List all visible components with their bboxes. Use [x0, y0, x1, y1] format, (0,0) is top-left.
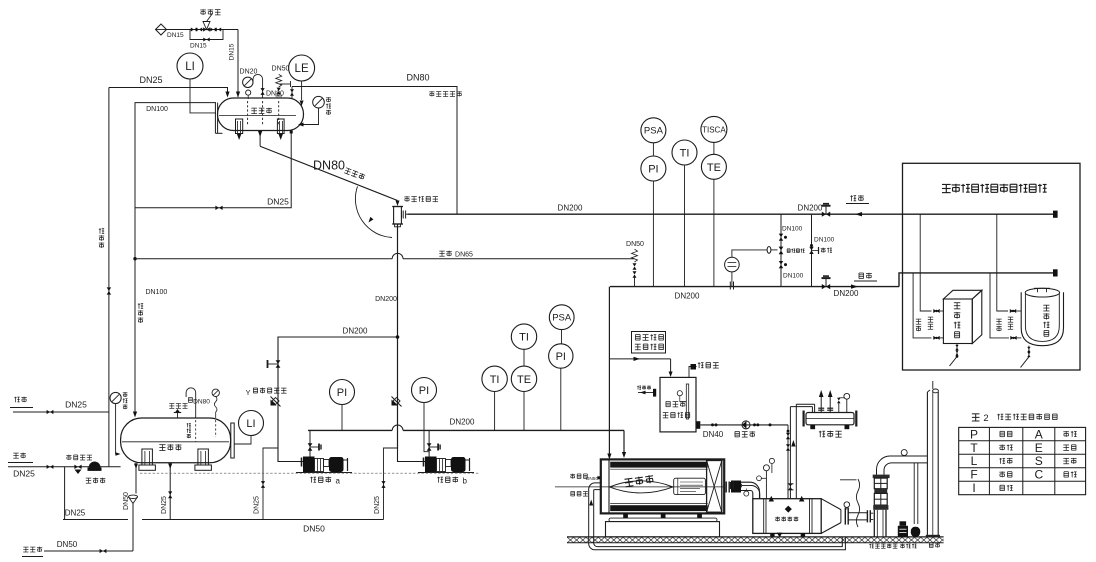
labels 软水箱 用户自备 inside tank [666, 401, 686, 407]
pressure switch alarm PSA inlet [549, 305, 574, 330]
shutoff valve lower on DN100 branch [779, 261, 783, 268]
pump-a discharge with valve to header [309, 430, 311, 456]
wire: separator drop DN200 [397, 224, 399, 448]
label 溢流管 on DN100 drop [138, 303, 143, 323]
heater bottom refractory band [610, 505, 708, 511]
saddle supports of expansion tank [236, 119, 243, 134]
wire: vessel feed from return line [997, 214, 1008, 311]
label 放空管 vertical [187, 423, 191, 438]
temperature element TE [511, 366, 536, 391]
loop seal arc at separator [355, 186, 392, 237]
marks on waste heat boiler top [769, 496, 774, 502]
dip tubes dashed in storage tank [195, 420, 197, 442]
wire: cabinet feed from return line [920, 214, 931, 311]
oil-gas separator 油气分离器 [404, 196, 438, 202]
level element LE [289, 55, 315, 81]
label 燃烧器 [571, 491, 588, 496]
table chinese column 2 [1063, 431, 1076, 437]
svg-text:DN200: DN200 [834, 289, 859, 298]
upper temperature indicator TI [511, 324, 536, 349]
svg-text:DN100: DN100 [782, 226, 803, 233]
control valve 调节阀 on DN100 branch [779, 247, 784, 255]
wire: TI stem [684, 165, 686, 287]
waste heat boiler 余热锅炉 shell [753, 499, 821, 534]
stack 烟囱 [926, 392, 928, 537]
vessel inlet valves [1010, 309, 1016, 313]
wire: feedwater drop with valves [787, 425, 789, 499]
label 铸铁 DN65 [439, 251, 451, 257]
label 余热锅炉 [775, 517, 798, 522]
wire: LI stem into tank left head [190, 79, 216, 113]
labels at vessel valves [996, 319, 1001, 331]
labels at cabinet valves [916, 319, 921, 331]
svg-text:b: b [463, 477, 468, 486]
shutoff valve upper on DN100 branch [779, 234, 783, 241]
label 回油 with underline and flow arrow [850, 195, 864, 201]
hanger rods to induced draft fan [913, 463, 915, 524]
wire: DN25 from left riser to expansion tank top [109, 88, 228, 93]
label 循环泵a [310, 477, 331, 483]
wire: DN15 line from flame arrestor to solenoid manifold [166, 29, 238, 31]
wire: instrument tap with break marks [731, 272, 733, 287]
wire: steam riser double pipe from waste heat boiler [789, 407, 791, 499]
svg-text:DN25: DN25 [267, 197, 289, 207]
waste heat boiler outlet cone [821, 499, 841, 510]
induced draft fan 引风机 [898, 526, 908, 537]
drain riser from pump-a suction [263, 448, 278, 520]
svg-text:DN15: DN15 [229, 43, 236, 60]
svg-text:DN200: DN200 [798, 204, 823, 213]
svg-text:DN80: DN80 [313, 159, 345, 173]
wire: DN100 bypass branch [811, 214, 813, 286]
pressure gauge on distributor [844, 393, 850, 399]
valve on DN25 equalizing line [215, 206, 222, 210]
svg-text:a: a [336, 477, 341, 486]
label 软水泵 [735, 431, 755, 437]
svg-text:DN100: DN100 [783, 273, 804, 280]
svg-text:C: C [1034, 468, 1043, 482]
svg-text:DN200: DN200 [675, 292, 700, 301]
svg-text:DN65: DN65 [455, 252, 473, 259]
wire: cabinet feed from supply line [913, 273, 931, 338]
svg-text:T: T [970, 441, 978, 455]
overflow nozzle with arrow [637, 386, 651, 390]
label 引风机 [900, 544, 916, 549]
heater nameplate [674, 478, 706, 494]
riser nozzle 2 with arrow [829, 396, 831, 413]
svg-text:DN25: DN25 [13, 469, 35, 479]
wire: pump-a suction from DN200 riser branch [278, 337, 398, 462]
thermometer 温度计 at tank right [313, 96, 325, 108]
svg-text:DN20: DN20 [240, 69, 258, 76]
distributor legs [810, 425, 815, 429]
drain header DN50 [142, 519, 384, 521]
svg-text:DN100: DN100 [146, 289, 168, 296]
level indicator LI (expansion tank) [177, 53, 203, 79]
svg-text:PSA: PSA [644, 126, 664, 137]
svg-text:DN25: DN25 [161, 496, 168, 514]
wire: DN25 equalizing line tank bottom right [135, 132, 291, 208]
svg-text:DN50: DN50 [272, 66, 290, 73]
table chinese column 1 [1000, 431, 1012, 436]
cabinet drain with valves [956, 344, 958, 357]
svg-text:DN200: DN200 [558, 204, 583, 213]
svg-text:DN50: DN50 [57, 540, 78, 549]
burner fuel piping loop under floor [589, 483, 846, 550]
svg-text:TI: TI [680, 147, 690, 159]
wire: DN100 make-up line elbow to tank left plate [135, 103, 216, 412]
label 用热设备 in vessel [1043, 305, 1049, 336]
pressure indicator PI pump-a [330, 380, 355, 405]
label 点火口 DN50 [570, 474, 587, 479]
heat-user cabinet (3D box) [943, 299, 972, 344]
Y-strainer pump-b [392, 397, 402, 407]
svg-text:DN200: DN200 [450, 418, 475, 427]
pressure switch alarm PSA (heater outlet) [641, 118, 666, 143]
svg-text:PI: PI [337, 387, 347, 399]
label 空气预热器 [869, 544, 897, 549]
svg-text:TE: TE [517, 374, 531, 386]
heater top refractory band [610, 462, 708, 468]
svg-text:PI: PI [648, 163, 658, 175]
flue duct from economizer to stack [877, 456, 928, 475]
jacketed heat-user vessel [1021, 292, 1063, 345]
wire: PSA-PI stem to supply header [652, 143, 654, 156]
heater foundation block [606, 522, 720, 537]
svg-text:LE: LE [295, 63, 309, 75]
valve nozzle on distributor [838, 403, 840, 413]
level indicator LI on storage tank [239, 411, 264, 436]
steam distributor 分汽缸 [806, 413, 854, 425]
valve pair on steam riser [787, 483, 793, 485]
temperature indicator TI (heater outlet) [672, 140, 697, 165]
valve pair right of solenoid [210, 28, 216, 32]
label 膨胀管 rotated on diagonal [344, 167, 365, 180]
svg-text:DN100: DN100 [146, 106, 168, 113]
valve on left riser [107, 287, 111, 294]
label 烟囱 [929, 543, 940, 548]
svg-text:TE: TE [707, 162, 721, 174]
svg-text:P: P [970, 427, 978, 441]
label 分汽缸 [819, 431, 842, 437]
vent gooseneck 至DN80 on tank top [253, 74, 263, 98]
svg-text:DN80: DN80 [266, 91, 284, 98]
svg-text:DN50: DN50 [303, 524, 325, 534]
svg-text:2: 2 [983, 413, 988, 424]
drain riser from pump-b suction [384, 448, 398, 520]
svg-text:PSA: PSA [552, 313, 572, 324]
wire: fill line branch down to drain header [64, 467, 66, 520]
svg-text:PI: PI [556, 351, 566, 363]
wire: expansion drop pipe from tank bottom [259, 131, 261, 147]
valve on tank gas nozzle to DN80 header [291, 87, 293, 99]
soft water tank 软水箱用户自备 [660, 377, 696, 432]
flame pattern ellipse with label [610, 481, 674, 493]
oil filter 油过滤器 [66, 455, 92, 460]
vessel: expansion tank 膨胀槽 [218, 98, 304, 131]
temperature indicator TI heater-inlet group [482, 366, 507, 391]
gauge on flue duct [901, 450, 907, 456]
label 接膨胀气管 [429, 91, 462, 96]
wire: left main riser x=109 [108, 88, 110, 467]
heater 导热油炉 shell [601, 459, 724, 513]
breather valve 呼吸阀 [169, 404, 187, 409]
match line wavy break [856, 479, 859, 527]
gauge on cone neck [844, 502, 850, 508]
circulating pump b 循环泵b [425, 457, 437, 473]
gate valve on supply header [822, 284, 830, 289]
heat-user area frame 用热设备区域流程示意框 [903, 163, 1081, 370]
feedwater valve train into waste heat boiler [730, 482, 732, 489]
gate valve on return header [822, 212, 830, 217]
vent to atmosphere 通大气 [689, 367, 697, 378]
table 表2 caption [972, 414, 980, 421]
wire: DN100 control valve branch between headers [780, 214, 782, 286]
svg-text:DN40: DN40 [703, 430, 724, 439]
label 供油 with underline and flow arrow [859, 273, 872, 279]
pressure indicator PI below PSA [641, 156, 666, 181]
svg-text:DN50: DN50 [626, 241, 644, 248]
vessel: oil storage tank 储油槽 [121, 418, 231, 463]
wire: TISCA-TE stem [713, 142, 715, 154]
label 循环泵b [437, 477, 458, 483]
return line terminator in frame [1053, 211, 1058, 218]
pump-b discharge with valve [428, 430, 430, 456]
svg-text:DN25: DN25 [65, 509, 86, 518]
cabinet inlet valves [933, 309, 939, 313]
rear smoke box with X bracing [707, 461, 722, 513]
pressure indicator PI pump-b [412, 378, 437, 403]
wire: supply header DN200 (y=287) [610, 286, 899, 288]
suction valve pump-a (handle left) [276, 360, 281, 368]
vent stack 至DN80 gooseneck on storage tank [188, 397, 192, 402]
svg-text:DN80: DN80 [406, 73, 429, 83]
label 储油槽 [159, 444, 181, 450]
wire: supply drop to heater inlet [608, 287, 610, 454]
svg-text:DN200: DN200 [375, 296, 397, 303]
svg-text:F: F [970, 468, 977, 482]
wire: main return header DN200 (y=214) [408, 213, 1055, 215]
storage tank left drain with funnel to DN50 [135, 463, 137, 494]
wire: DN80 expansion gas header [292, 87, 457, 215]
svg-text:E: E [1035, 441, 1043, 455]
wire: pump discharge header to heater DN200 [308, 429, 392, 431]
blowdown pipe 运行管 DN50 [23, 547, 42, 552]
storage tank saddles [142, 449, 153, 465]
wire: vessel feed from supply line [990, 273, 1009, 338]
pressure gauge with siphon on storage tank [212, 389, 219, 396]
foundation line under tank and pumps [140, 472, 480, 474]
svg-text:DN50: DN50 [586, 476, 599, 482]
svg-text:DN25: DN25 [65, 400, 87, 410]
svg-text:TI: TI [490, 374, 500, 386]
bypass valve 旁通 [809, 247, 813, 254]
wire: DN80 expansion diagonal 膨胀管 to separator [260, 146, 397, 200]
waste heat boiler legs and marks [770, 533, 774, 536]
wire: soft water supply tee with arrow [609, 358, 670, 360]
heater support feet [623, 513, 628, 518]
soft water pump line DN40 [696, 421, 700, 429]
oil drain line 排油 DN25 [14, 397, 26, 403]
pressure indicator PI inlet [549, 344, 573, 368]
label box 软水设备用户自备 [632, 332, 666, 354]
label 用热设备 in cabinet [954, 303, 960, 338]
storage tank center drain with valve [169, 463, 171, 520]
temperature element TE below TISCA [701, 154, 726, 179]
wire: cast-iron DN65 overflow line [135, 258, 392, 260]
ground line [567, 536, 944, 538]
heater skid bar [609, 518, 717, 522]
svg-text:LI: LI [185, 61, 195, 73]
economizer tower 空气预热器 [873, 475, 890, 479]
svg-text:DN15: DN15 [167, 32, 184, 39]
supply line terminator in frame [1053, 269, 1058, 276]
svg-text:DN100: DN100 [814, 237, 835, 244]
wire: pump-b suction drop from separator line [398, 448, 426, 462]
flanged outlet duct heater to waste-heat boiler [725, 482, 727, 493]
svg-text:S: S [1035, 454, 1043, 468]
solenoid valve 电磁阀 with actuator [203, 27, 210, 31]
svg-text:DN25: DN25 [374, 496, 381, 514]
svg-text:A: A [1035, 427, 1043, 441]
svg-text:L: L [971, 454, 978, 468]
tank level gauge [686, 384, 688, 419]
label 回油管 vertical [99, 228, 104, 248]
dip tubes (dashed) inside expansion tank [247, 101, 249, 125]
wire: DN15 drop to expansion tank, rotated label [237, 30, 239, 98]
svg-text:TISCA: TISCA [702, 125, 726, 134]
svg-text:PI: PI [419, 385, 429, 397]
svg-text:DN25: DN25 [254, 496, 261, 514]
differential pressure instrument on supply header [725, 257, 740, 272]
svg-text:DN25: DN25 [139, 75, 162, 85]
wire: LE stem into tank [301, 81, 303, 100]
svg-text:DN200: DN200 [343, 327, 368, 336]
oil fill line 注油 DN25 with filter and fill pump [13, 453, 25, 459]
flame arrestor fitting (diamond) on DN15 line [156, 24, 167, 35]
Y-strainer pump-a [271, 397, 281, 407]
svg-text:TI: TI [519, 332, 529, 344]
temperature controller TISCA [701, 116, 727, 142]
fill pump 注油泵 [89, 462, 100, 468]
circulating pump a 循环泵a [303, 457, 315, 473]
bypass loop with valve, DN15 [190, 30, 223, 40]
valve pair left of solenoid [191, 28, 197, 32]
thermometer 温度计 on storage tank [110, 392, 121, 403]
svg-text:DN15: DN15 [190, 43, 207, 50]
svg-text:LI: LI [246, 418, 255, 430]
label 膨胀槽 inside tank [251, 108, 272, 114]
wire: instrument impulse line to control valve [732, 250, 767, 257]
frame title [942, 184, 1047, 193]
svg-text:DN50: DN50 [123, 492, 130, 510]
vessel drain with valves [1028, 346, 1030, 357]
table grid [959, 427, 1086, 494]
svg-text:I: I [972, 481, 975, 495]
svg-text:Y: Y [245, 388, 250, 397]
safety valves on waste heat boiler [765, 471, 767, 499]
riser nozzle 1 with arrow [820, 396, 822, 413]
